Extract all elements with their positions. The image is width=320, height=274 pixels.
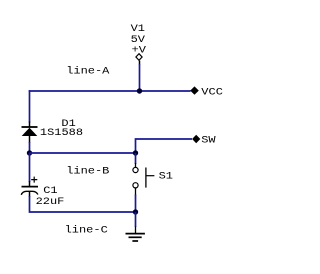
junction line-C right	[133, 209, 138, 214]
wire left vertical upper	[29, 90, 31, 122]
port VCC diamond	[190, 86, 199, 94]
wire SW horizontal	[136, 139, 193, 153]
switch S1 top lead	[135, 163, 137, 167]
wire left vertical mid	[29, 153, 31, 182]
wire junction to ground	[135, 212, 137, 227]
capacitor C1 curved plate	[21, 191, 38, 195]
svg-text:V1: V1	[131, 24, 146, 35]
switch S1 bottom contact circle	[133, 183, 138, 188]
wire supply vertical	[139, 64, 141, 91]
port SW diamond	[192, 135, 200, 143]
svg-text:SW: SW	[201, 135, 216, 146]
wire supply stub black	[139, 61, 141, 65]
switch S1 actuator arm	[146, 175, 154, 177]
diode D1 triangle	[22, 128, 38, 136]
svg-text:22uF: 22uF	[36, 197, 65, 208]
svg-text:5V: 5V	[131, 34, 146, 45]
power symbol +V diamond	[136, 54, 142, 61]
wire switch to line-C	[135, 195, 137, 213]
junction line-B left	[27, 150, 32, 155]
svg-text:1S1588: 1S1588	[40, 127, 83, 138]
junction line-A / supply	[137, 88, 142, 93]
capacitor C1 top lead	[29, 181, 31, 187]
diode D1 bottom lead	[29, 136, 31, 143]
wire diode to line-B	[29, 142, 31, 153]
wire cap to line-C corner	[30, 196, 136, 212]
svg-text:line-A: line-A	[66, 66, 110, 77]
diode D1 cathode bar	[22, 126, 38, 128]
svg-text:line-B: line-B	[66, 166, 110, 177]
capacitor C1 top plate	[22, 186, 39, 188]
svg-text:S1: S1	[159, 171, 174, 182]
switch S1 top contact circle	[133, 167, 138, 172]
switch S1 bottom lead	[135, 188, 137, 196]
svg-text:VCC: VCC	[201, 87, 223, 98]
wire line-B	[30, 152, 136, 154]
ground stub	[135, 227, 137, 234]
wire line-A	[29, 90, 191, 92]
diode D1 top lead	[29, 122, 31, 128]
svg-text:C1: C1	[43, 186, 58, 197]
capacitor C1 bottom lead	[29, 192, 31, 198]
wire junction to switch top	[135, 153, 137, 164]
capacitor C1 plus sign	[31, 177, 37, 183]
junction line-B right	[133, 150, 138, 155]
svg-text:line-C: line-C	[65, 225, 109, 236]
switch S1 actuator bar	[145, 168, 147, 188]
ground symbol	[126, 234, 145, 241]
